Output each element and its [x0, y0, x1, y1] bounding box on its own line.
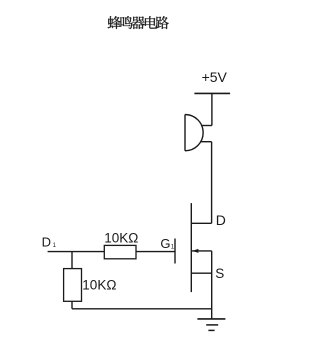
svg-text:+5V: +5V: [202, 69, 228, 85]
svg-text:D: D: [216, 212, 226, 228]
svg-text:G: G: [160, 236, 170, 251]
svg-text:10KΩ: 10KΩ: [82, 277, 116, 292]
svg-text:D: D: [42, 235, 51, 250]
svg-text:10KΩ: 10KΩ: [104, 231, 138, 246]
svg-text:1: 1: [53, 243, 57, 249]
svg-text:S: S: [215, 266, 224, 281]
svg-text:1: 1: [171, 245, 175, 251]
